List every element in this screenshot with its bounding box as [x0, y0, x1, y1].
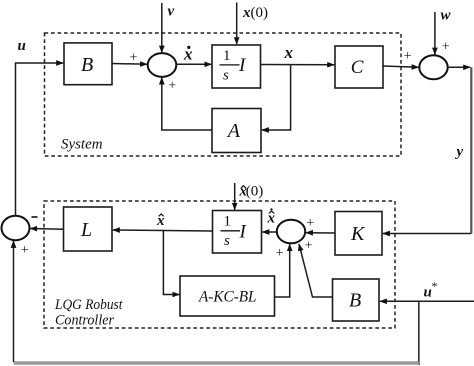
wire bottom feedback bar [14, 361, 419, 364]
input arrow v [161, 3, 163, 53]
svg-text:+: + [130, 51, 138, 66]
input arrow w [434, 12, 436, 55]
wire S2 output right to corner [448, 66, 471, 68]
svg-text:B: B [349, 290, 361, 312]
summing junction S1 (state derivative sum) [148, 53, 177, 77]
wire integrator output to C with node x [261, 64, 335, 66]
block K (controller) [335, 212, 382, 256]
label x-dot [183, 45, 193, 64]
svg-text:B: B [81, 54, 93, 76]
svg-text:+: + [306, 216, 314, 231]
wire integrator2 output to L with node x-hat [113, 230, 213, 231]
wire y down right edge [470, 67, 472, 233]
svg-text:LQG Robust: LQG Robust [54, 297, 123, 313]
block C (system) [335, 46, 383, 88]
block 1/s I integrator (system) [212, 45, 261, 88]
svg-text:A: A [226, 120, 241, 142]
input arrow x(0) [236, 3, 238, 45]
svg-text:+: + [404, 49, 412, 64]
wire B output to S1 [112, 63, 147, 66]
svg-text:*: * [432, 279, 438, 293]
input wire u-star into B2 [380, 300, 474, 302]
summing junction S4 (control sum) [2, 216, 30, 240]
svg-text:1: 1 [223, 48, 231, 64]
svg-text:C: C [351, 57, 364, 78]
wire x-hat node down into A-KC-BL [163, 231, 179, 295]
svg-text:+: + [442, 40, 450, 55]
wire S3 output to integrator2 [262, 231, 277, 233]
label u-star [424, 279, 438, 301]
block A-KC-BL (controller) [180, 276, 275, 316]
svg-text:+: + [168, 78, 176, 93]
label x-hat(0) [239, 184, 264, 200]
label x(0) [242, 5, 268, 21]
block B (system) [64, 43, 112, 85]
svg-text:w: w [441, 8, 452, 24]
svg-text:s: s [224, 233, 230, 249]
svg-text:y: y [455, 144, 464, 160]
svg-text:s: s [223, 68, 229, 84]
wire B2 output diagonal up to S3 [299, 244, 333, 297]
wire S1 output to integrator [176, 63, 211, 65]
wire L output to S4 [30, 228, 63, 231]
wire K output to S3 [306, 232, 335, 234]
wire x node down into A [262, 65, 291, 130]
input arrow x-hat(0) [234, 183, 236, 210]
svg-text:+: + [21, 243, 29, 258]
wire C output to S2 [383, 66, 419, 67]
svg-text:v: v [168, 4, 175, 20]
svg-text:1: 1 [224, 214, 232, 230]
label x-hat-dot [267, 208, 276, 226]
svg-text:+: + [305, 238, 313, 253]
wire A feedback to S1 [162, 78, 212, 131]
svg-text:(0): (0) [246, 184, 263, 200]
svg-text:+: + [276, 246, 284, 261]
wire up into S4 from bottom [13, 241, 15, 362]
svg-text:K: K [350, 223, 366, 245]
wire u-star feedback down right [418, 301, 420, 365]
summing junction S2 (output + w) [419, 55, 447, 79]
block L (controller) [64, 207, 113, 251]
block 1/s I integrator (controller) [213, 211, 262, 254]
block B (controller) [333, 279, 380, 321]
svg-text:(0): (0) [251, 5, 269, 21]
wire u from S4 up into B [16, 63, 64, 216]
svg-text:Controller: Controller [55, 313, 114, 329]
svg-text:System: System [61, 137, 103, 153]
dashed box System [45, 33, 402, 156]
wire y into K [383, 233, 471, 235]
minus sign at S4 right input [32, 216, 38, 218]
summing junction S3 (estimator sum) [277, 220, 305, 244]
wire A-KC-BL output up to S3 [275, 244, 290, 297]
svg-text:A-KC-BL: A-KC-BL [198, 289, 257, 306]
block A (system feedback) [212, 109, 261, 153]
dashed box LQG Robust Controller [44, 201, 395, 328]
svg-text:L: L [80, 219, 92, 241]
svg-text:u: u [18, 38, 26, 54]
label x-hat [156, 213, 165, 229]
svg-text:x: x [284, 43, 294, 62]
